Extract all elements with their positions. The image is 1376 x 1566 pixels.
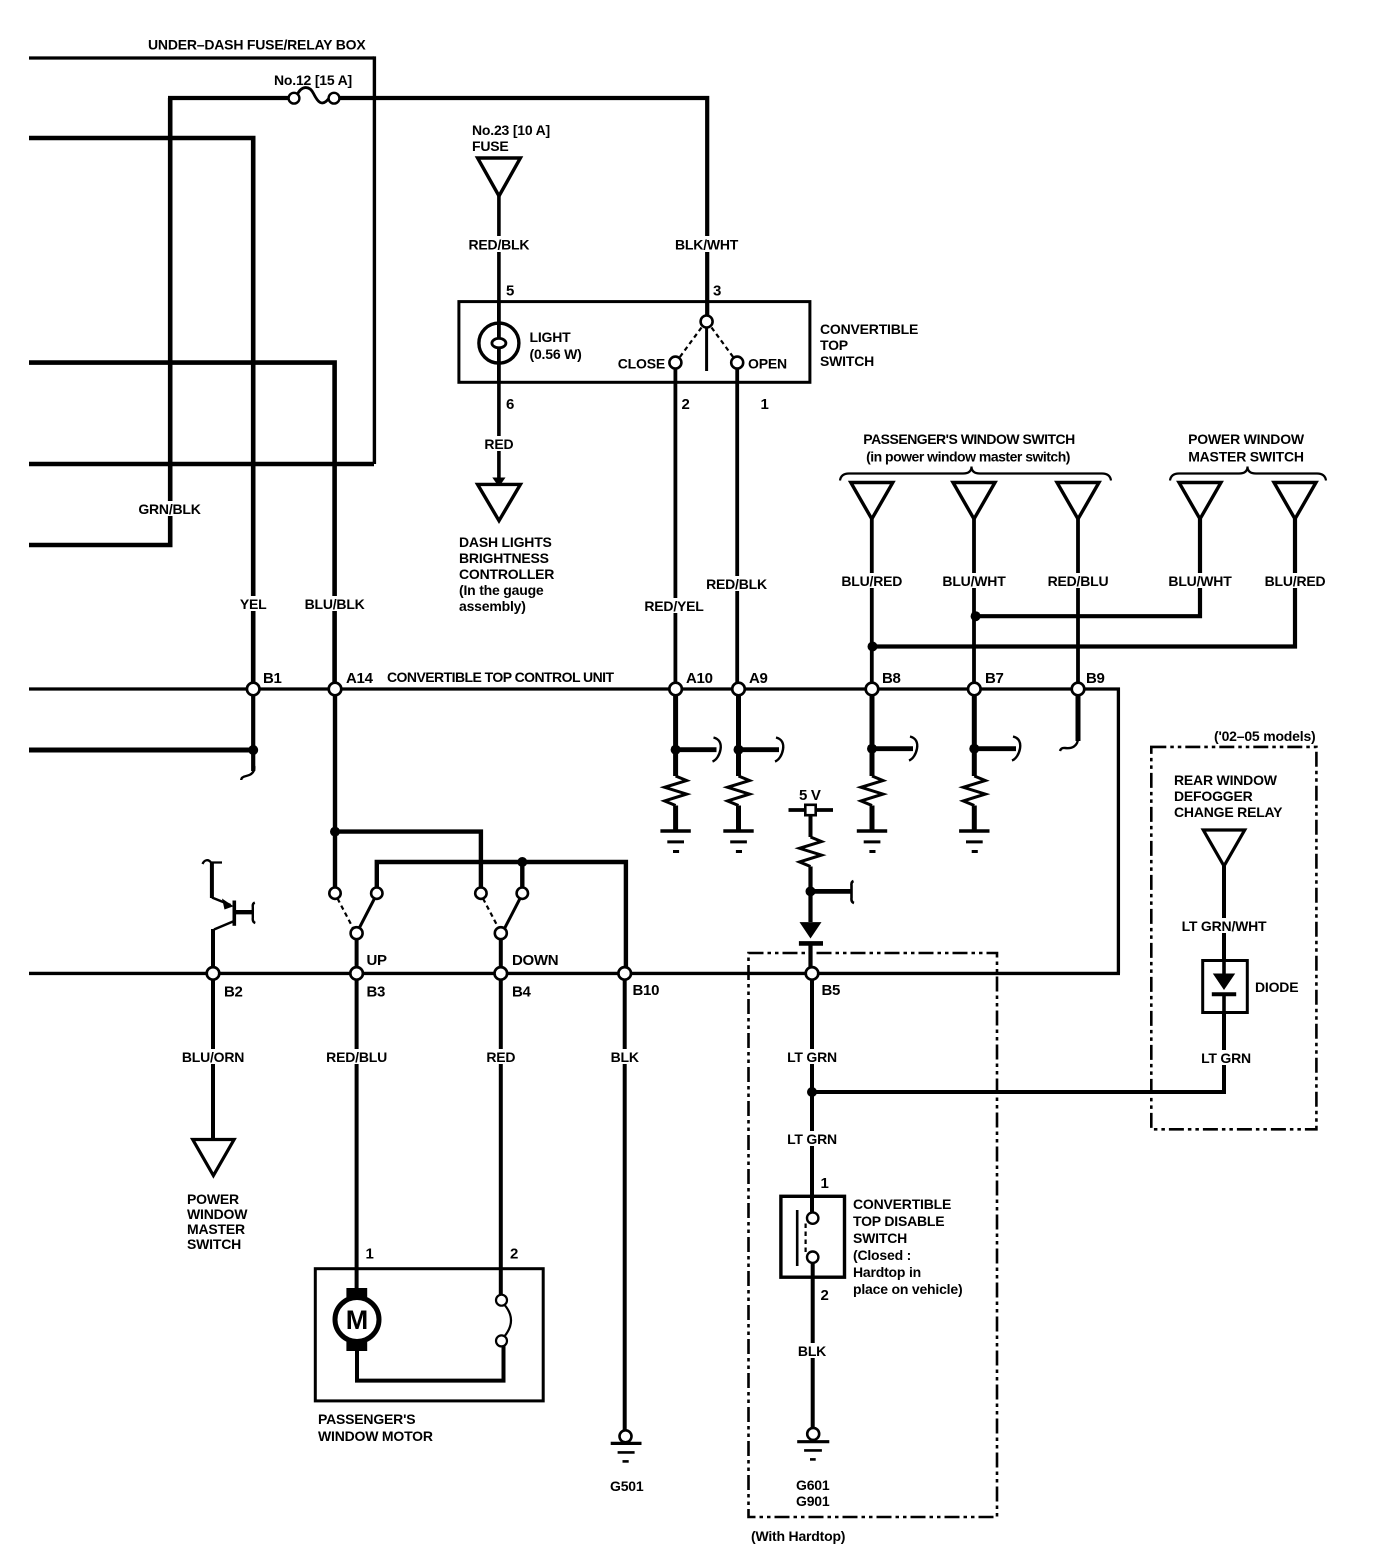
connector triangle passenger window switch RED/BLU xyxy=(1057,483,1099,520)
switch dashed throw to CLOSE xyxy=(680,328,702,358)
contact UP right xyxy=(371,888,382,899)
ground G501 xyxy=(611,1430,642,1461)
svg-text:BLU/WHT: BLU/WHT xyxy=(1168,573,1232,589)
connector triangle passenger window switch BLU/RED xyxy=(851,483,893,520)
wire A10 resistor to ground xyxy=(673,806,678,832)
svg-text:5: 5 xyxy=(506,283,514,300)
svg-text:DOWN: DOWN xyxy=(512,952,558,969)
svg-text:RED/BLU: RED/BLU xyxy=(326,1049,387,1065)
switch arm UP dashed xyxy=(338,899,354,929)
switch arm DOWN solid xyxy=(505,899,521,929)
svg-text:POWER WINDOW: POWER WINDOW xyxy=(1188,431,1305,447)
svg-text:DIODE: DIODE xyxy=(1255,979,1298,995)
wire A14 lead to UP switch xyxy=(333,689,337,888)
wire label RED/BLK (open) xyxy=(705,576,769,592)
svg-text:A10: A10 xyxy=(686,670,713,687)
wire label YEL xyxy=(238,596,269,612)
node B2 xyxy=(207,967,220,980)
wire DOWN movable to B4 xyxy=(499,939,503,971)
connector triangle DASH LIGHTS BRIGHTNESS CONTROLLER xyxy=(478,484,521,520)
svg-text:BRIGHTNESS: BRIGHTNESS xyxy=(459,550,549,566)
svg-text:DASH LIGHTS: DASH LIGHTS xyxy=(459,534,552,550)
svg-text:M: M xyxy=(346,1305,369,1335)
wire label RED/BLU (passenger) xyxy=(1046,573,1109,589)
svg-text:B2: B2 xyxy=(224,984,243,1001)
diode D2 box DIODE xyxy=(1203,961,1248,1013)
svg-text:LIGHT: LIGHT xyxy=(530,329,572,345)
svg-text:TOP: TOP xyxy=(820,337,848,353)
junction BLU/RED xyxy=(868,642,878,652)
svg-text:RED/BLU: RED/BLU xyxy=(1048,573,1109,589)
wire B7 internal stub xyxy=(974,746,1016,751)
connector triangle master switch BLU/WHT xyxy=(1179,483,1221,520)
switch arm DOWN dashed xyxy=(483,899,499,929)
svg-text:SWITCH: SWITCH xyxy=(820,353,874,369)
junction B8 lead xyxy=(867,744,877,754)
wire label BLK (disable switch) xyxy=(796,1343,828,1359)
svg-text:LT GRN/WHT: LT GRN/WHT xyxy=(1182,918,1267,934)
wire fuse No.12 feed xyxy=(168,96,289,100)
svg-text:SWITCH: SWITCH xyxy=(853,1230,907,1246)
node A9 xyxy=(732,683,745,696)
wire B10 BLK to G501 xyxy=(623,975,627,1431)
svg-text:LT GRN: LT GRN xyxy=(787,1049,837,1065)
motor switch contact upper xyxy=(496,1295,507,1306)
with-hardtop dash-dot box xyxy=(749,953,998,1517)
svg-text:MASTER SWITCH: MASTER SWITCH xyxy=(1188,449,1304,465)
wire 5V to resistor xyxy=(809,815,813,837)
wire label RED/YEL xyxy=(643,598,706,614)
wire label RED xyxy=(482,436,516,452)
wire A10 lead to resistor xyxy=(673,689,678,776)
node B5 xyxy=(806,967,819,980)
lamp LIGHT (0.56 W) xyxy=(479,323,519,363)
connector triangle POWER WINDOW MASTER SWITCH xyxy=(193,1140,234,1176)
svg-text:A14: A14 xyxy=(346,670,374,687)
svg-text:B7: B7 xyxy=(985,670,1004,687)
resistor A9 xyxy=(728,776,750,805)
motor switch contact lower xyxy=(496,1335,507,1346)
wire UP right contact to B10 riser xyxy=(377,862,626,971)
svg-text:MASTER: MASTER xyxy=(187,1221,245,1237)
wire A14 branch to DOWN switch left contact xyxy=(335,832,481,888)
wire fuse-box top line xyxy=(29,56,374,59)
svg-text:('02–05 models): ('02–05 models) xyxy=(1214,728,1316,744)
svg-text:BLU/RED: BLU/RED xyxy=(1265,573,1326,589)
wire defogger relay LT GRN/WHT to diode xyxy=(1222,866,1226,962)
wire fuse-box right vertical xyxy=(373,56,376,464)
connector triangle passenger window switch BLU/WHT xyxy=(953,483,995,520)
wire label BLU/RED (passenger) xyxy=(841,573,904,589)
svg-text:POWER: POWER xyxy=(187,1191,239,1207)
ground A10 xyxy=(660,831,690,852)
svg-text:CHANGE RELAY: CHANGE RELAY xyxy=(1174,804,1283,820)
node B10 xyxy=(618,967,631,980)
convertible top switch box xyxy=(459,302,810,383)
svg-text:B1: B1 xyxy=(263,670,282,687)
svg-text:BLU/WHT: BLU/WHT xyxy=(942,573,1006,589)
svg-text:6: 6 xyxy=(506,396,514,413)
wire label BLU/ORN xyxy=(181,1049,246,1065)
wire disable switch pin 2 BLK to G601 xyxy=(811,1263,815,1428)
junction A9 lead xyxy=(734,745,744,755)
svg-text:YEL: YEL xyxy=(240,596,267,612)
brace passenger's window switch group xyxy=(840,467,1111,481)
junction A14 lead xyxy=(330,827,340,837)
fuse F12 No.12 [15 A] symbol xyxy=(289,88,340,104)
junction A10 lead xyxy=(671,745,681,755)
svg-text:CONTROLLER: CONTROLLER xyxy=(459,566,554,582)
svg-text:CLOSE: CLOSE xyxy=(618,356,665,372)
svg-text:BLK: BLK xyxy=(798,1343,826,1359)
node B8 xyxy=(866,683,879,696)
ground B8 xyxy=(857,831,887,852)
ground A9 xyxy=(723,831,753,852)
connector triangle REAR WINDOW DEFOGGER CHANGE RELAY xyxy=(1203,830,1244,866)
svg-text:A9: A9 xyxy=(749,670,768,687)
wire B7 resistor to ground xyxy=(972,806,977,832)
svg-text:B9: B9 xyxy=(1086,670,1105,687)
ground B7 xyxy=(959,831,989,852)
svg-text:B3: B3 xyxy=(367,984,386,1001)
svg-text:CONVERTIBLE: CONVERTIBLE xyxy=(820,321,918,337)
wire motor bottom loop xyxy=(357,1345,504,1381)
brace power window master switch group xyxy=(1170,467,1326,481)
wire fuse No.12 to BLK/WHT corner xyxy=(339,98,707,316)
svg-text:B10: B10 xyxy=(633,982,660,999)
junction at B1 lead xyxy=(248,745,258,755)
svg-text:G501: G501 xyxy=(610,1478,644,1494)
svg-text:2: 2 xyxy=(821,1287,829,1304)
wire label LT GRN/WHT xyxy=(1178,918,1270,934)
node B7 xyxy=(968,683,981,696)
passenger window motor box xyxy=(315,1269,543,1401)
svg-text:B5: B5 xyxy=(822,982,841,999)
hook wire-end B8 stub xyxy=(909,737,917,761)
node B4 xyxy=(495,967,508,980)
svg-text:G901: G901 xyxy=(796,1493,830,1509)
svg-text:No.12 [15 A]: No.12 [15 A] xyxy=(274,72,352,88)
wire label BLK (B10) xyxy=(609,1049,641,1065)
resistor A10 xyxy=(665,776,687,805)
control unit lower bus B-row xyxy=(29,972,1120,975)
disable switch contact 1 xyxy=(807,1212,818,1223)
wire pin 1 OPEN RED/BLK to A9 xyxy=(735,369,739,687)
hook wire-end B9 xyxy=(1060,738,1078,751)
wire A9 internal stub xyxy=(739,747,780,752)
wire BLU/WHT passenger to B7 xyxy=(972,519,976,687)
wire left feed 3 to A14 xyxy=(29,363,335,687)
switch arm UP solid xyxy=(359,899,375,929)
wire label LT GRN (B5 lower) xyxy=(786,1131,839,1147)
wire master BLU/RED joining passenger BLU/RED xyxy=(872,519,1295,647)
convertible top disable switch box xyxy=(781,1196,845,1277)
svg-text:RED/YEL: RED/YEL xyxy=(644,598,704,614)
svg-text:LT GRN: LT GRN xyxy=(787,1131,837,1147)
svg-text:BLK/WHT: BLK/WHT xyxy=(675,237,739,253)
hook wire-end A10 stub xyxy=(713,738,721,762)
svg-text:PASSENGER'S: PASSENGER'S xyxy=(318,1411,415,1427)
svg-text:(in power window master switch: (in power window master switch) xyxy=(866,449,1070,465)
contact OPEN xyxy=(731,357,743,369)
wire pin 2 CLOSE RED/YEL to A10 xyxy=(674,369,678,687)
wire resistor to diode xyxy=(808,867,812,923)
svg-text:BLU/RED: BLU/RED xyxy=(841,573,902,589)
wire 5V internal stub xyxy=(811,889,852,894)
junction BLU/WHT xyxy=(971,611,981,621)
wire label RED (motor) xyxy=(484,1049,518,1065)
svg-text:B8: B8 xyxy=(882,670,901,687)
svg-text:(0.56 W): (0.56 W) xyxy=(530,346,582,362)
wire B8 internal stub xyxy=(872,746,913,751)
svg-text:DEFOGGER: DEFOGGER xyxy=(1174,788,1253,804)
transistor Q1 xyxy=(203,860,256,971)
svg-text:TOP DISABLE: TOP DISABLE xyxy=(853,1213,944,1229)
wire pin 6 RED to dash lights controller xyxy=(497,382,501,482)
junction DOWN right contact xyxy=(517,857,527,867)
contact UP left xyxy=(329,888,340,899)
node A14 xyxy=(329,683,342,696)
hook wire-end below B1 xyxy=(241,766,254,780)
wire LT GRN branch to defogger diode xyxy=(812,1012,1224,1092)
resistor B7 xyxy=(963,776,985,805)
svg-text:Hardtop in: Hardtop in xyxy=(853,1264,921,1280)
rear window defogger dash-dot box ('02-05 models) xyxy=(1151,747,1316,1129)
junction B7 lead xyxy=(969,744,979,754)
contact DOWN movable xyxy=(495,927,507,939)
svg-text:UP: UP xyxy=(367,952,388,969)
wire label BLU/BLK xyxy=(303,596,366,612)
wire label LT GRN (defogger) xyxy=(1200,1050,1252,1066)
svg-text:BLK: BLK xyxy=(611,1049,639,1065)
node B1 xyxy=(247,683,260,696)
svg-text:assembly): assembly) xyxy=(459,598,526,614)
svg-text:(Closed :: (Closed : xyxy=(853,1247,911,1263)
wire label GRN/BLK xyxy=(137,501,203,517)
wire B9 open lead xyxy=(1076,689,1081,741)
svg-text:1: 1 xyxy=(821,1175,829,1192)
wire master BLU/WHT joining passenger BLU/WHT xyxy=(974,519,1200,616)
svg-text:(With Hardtop): (With Hardtop) xyxy=(751,1528,845,1544)
hook wire-end A9 stub xyxy=(775,738,783,762)
wire BLU/RED passenger to B8 xyxy=(870,519,874,687)
wire B5 LT GRN down xyxy=(810,977,814,1213)
svg-text:(In the gauge: (In the gauge xyxy=(459,582,544,598)
wire B2 to power window master switch connector xyxy=(211,975,215,1138)
wire A10 internal stub xyxy=(676,747,717,752)
wire junction to DOWN right contact xyxy=(520,862,524,888)
wire label BLU/WHT (master) xyxy=(1168,573,1233,589)
svg-text:RED/BLK: RED/BLK xyxy=(468,237,529,253)
svg-text:2: 2 xyxy=(682,396,690,413)
junction LT GRN branch xyxy=(807,1087,817,1097)
contact DOWN left xyxy=(475,888,486,899)
wire left feed 4 xyxy=(29,462,374,467)
wire B7 lead to resistor xyxy=(972,689,977,776)
wire A9 resistor to ground xyxy=(736,806,741,832)
wire B8 resistor to ground xyxy=(870,806,875,832)
ground G601 G901 xyxy=(797,1428,829,1460)
svg-text:2: 2 xyxy=(510,1246,518,1263)
svg-text:SWITCH: SWITCH xyxy=(187,1236,241,1252)
svg-text:LT GRN: LT GRN xyxy=(1201,1050,1251,1066)
node B3 xyxy=(350,967,363,980)
diode D1 to B5 xyxy=(799,922,823,967)
svg-text:WINDOW: WINDOW xyxy=(187,1206,248,1222)
svg-text:CONVERTIBLE: CONVERTIBLE xyxy=(853,1196,951,1212)
svg-text:CONVERTIBLE TOP CONTROL UNIT: CONVERTIBLE TOP CONTROL UNIT xyxy=(387,669,615,685)
wire RED/BLU passenger to B9 xyxy=(1076,519,1080,687)
svg-text:REAR WINDOW: REAR WINDOW xyxy=(1174,772,1278,788)
svg-text:No.23 [10 A]: No.23 [10 A] xyxy=(472,122,550,138)
svg-text:BLU/ORN: BLU/ORN xyxy=(182,1049,244,1065)
svg-text:1: 1 xyxy=(761,396,769,413)
svg-text:place on vehicle): place on vehicle) xyxy=(853,1281,962,1297)
switch dashed throw to OPEN xyxy=(712,328,734,358)
5V supply rail xyxy=(789,808,834,812)
T wire-end 5V stub xyxy=(851,881,854,903)
disable switch blade xyxy=(796,1210,799,1266)
svg-text:FUSE: FUSE xyxy=(472,138,509,154)
junction 5V branch xyxy=(806,886,816,896)
wire B1 lead below bus xyxy=(251,689,255,771)
resistor 5V pull-up xyxy=(800,837,822,866)
wire B4 RED to motor contact xyxy=(499,975,503,1296)
motor M1 brushes and body xyxy=(335,1288,379,1351)
svg-text:G601: G601 xyxy=(796,1477,830,1493)
switch arm common (pin 3) xyxy=(705,327,708,371)
wire left feed 6 thick to B1 lead xyxy=(29,748,253,753)
convertible top control unit bus A-row and right drop xyxy=(29,689,1118,973)
wire label BLU/WHT (passenger) xyxy=(942,573,1007,589)
wire left feed 2 to B1 xyxy=(29,138,253,687)
resistor B8 xyxy=(861,776,883,805)
connector triangle master switch BLU/RED xyxy=(1274,483,1316,520)
disable switch dashed link xyxy=(804,1224,806,1254)
wire fuse No.23 to pin 5 RED/BLK xyxy=(497,196,501,303)
contact common pin3 xyxy=(701,316,713,328)
wire A9 lead to resistor xyxy=(736,689,741,776)
contact DOWN right xyxy=(517,888,528,899)
svg-text:WINDOW MOTOR: WINDOW MOTOR xyxy=(318,1428,433,1444)
wire label BLU/RED (master) xyxy=(1263,573,1326,589)
motor switch arc xyxy=(505,1305,512,1337)
hook wire-end B7 stub xyxy=(1012,737,1020,761)
wire B3 RED/BLU to motor brush xyxy=(355,975,359,1290)
wire label RED/BLU (motor) xyxy=(325,1049,389,1065)
disable switch contact 2 xyxy=(807,1252,818,1263)
svg-text:1: 1 xyxy=(366,1246,374,1263)
svg-text:RED: RED xyxy=(486,1049,515,1065)
wire UP movable to B3 xyxy=(355,939,359,971)
svg-text:BLU/BLK: BLU/BLK xyxy=(305,596,365,612)
svg-text:GRN/BLK: GRN/BLK xyxy=(138,501,200,517)
arrowhead at dash lights connector xyxy=(492,478,505,488)
wire label LT GRN (B5 upper) xyxy=(786,1049,839,1065)
svg-text:3: 3 xyxy=(713,283,721,300)
contact UP movable xyxy=(351,927,363,939)
wire label RED/BLK (fuse 23) xyxy=(467,236,531,253)
svg-text:RED: RED xyxy=(484,436,513,452)
wire through light bulb to pin 6 xyxy=(497,302,501,383)
fuse F23 No.23 [10 A] triangle symbol xyxy=(478,158,521,196)
node A10 xyxy=(669,683,682,696)
5V supply box xyxy=(805,805,815,815)
wire label BLK/WHT xyxy=(674,236,740,253)
wire B8 lead to resistor xyxy=(870,689,875,776)
svg-text:RED/BLK: RED/BLK xyxy=(706,576,767,592)
node B9 xyxy=(1072,683,1085,696)
contact CLOSE xyxy=(669,357,681,369)
svg-text:OPEN: OPEN xyxy=(748,356,787,372)
svg-text:B4: B4 xyxy=(512,984,532,1001)
svg-text:PASSENGER'S WINDOW SWITCH: PASSENGER'S WINDOW SWITCH xyxy=(863,431,1075,447)
wire left feed 5 GRN/BLK xyxy=(29,98,170,545)
svg-text:5 V: 5 V xyxy=(799,787,821,804)
svg-text:UNDER–DASH FUSE/RELAY BOX: UNDER–DASH FUSE/RELAY BOX xyxy=(148,37,366,53)
